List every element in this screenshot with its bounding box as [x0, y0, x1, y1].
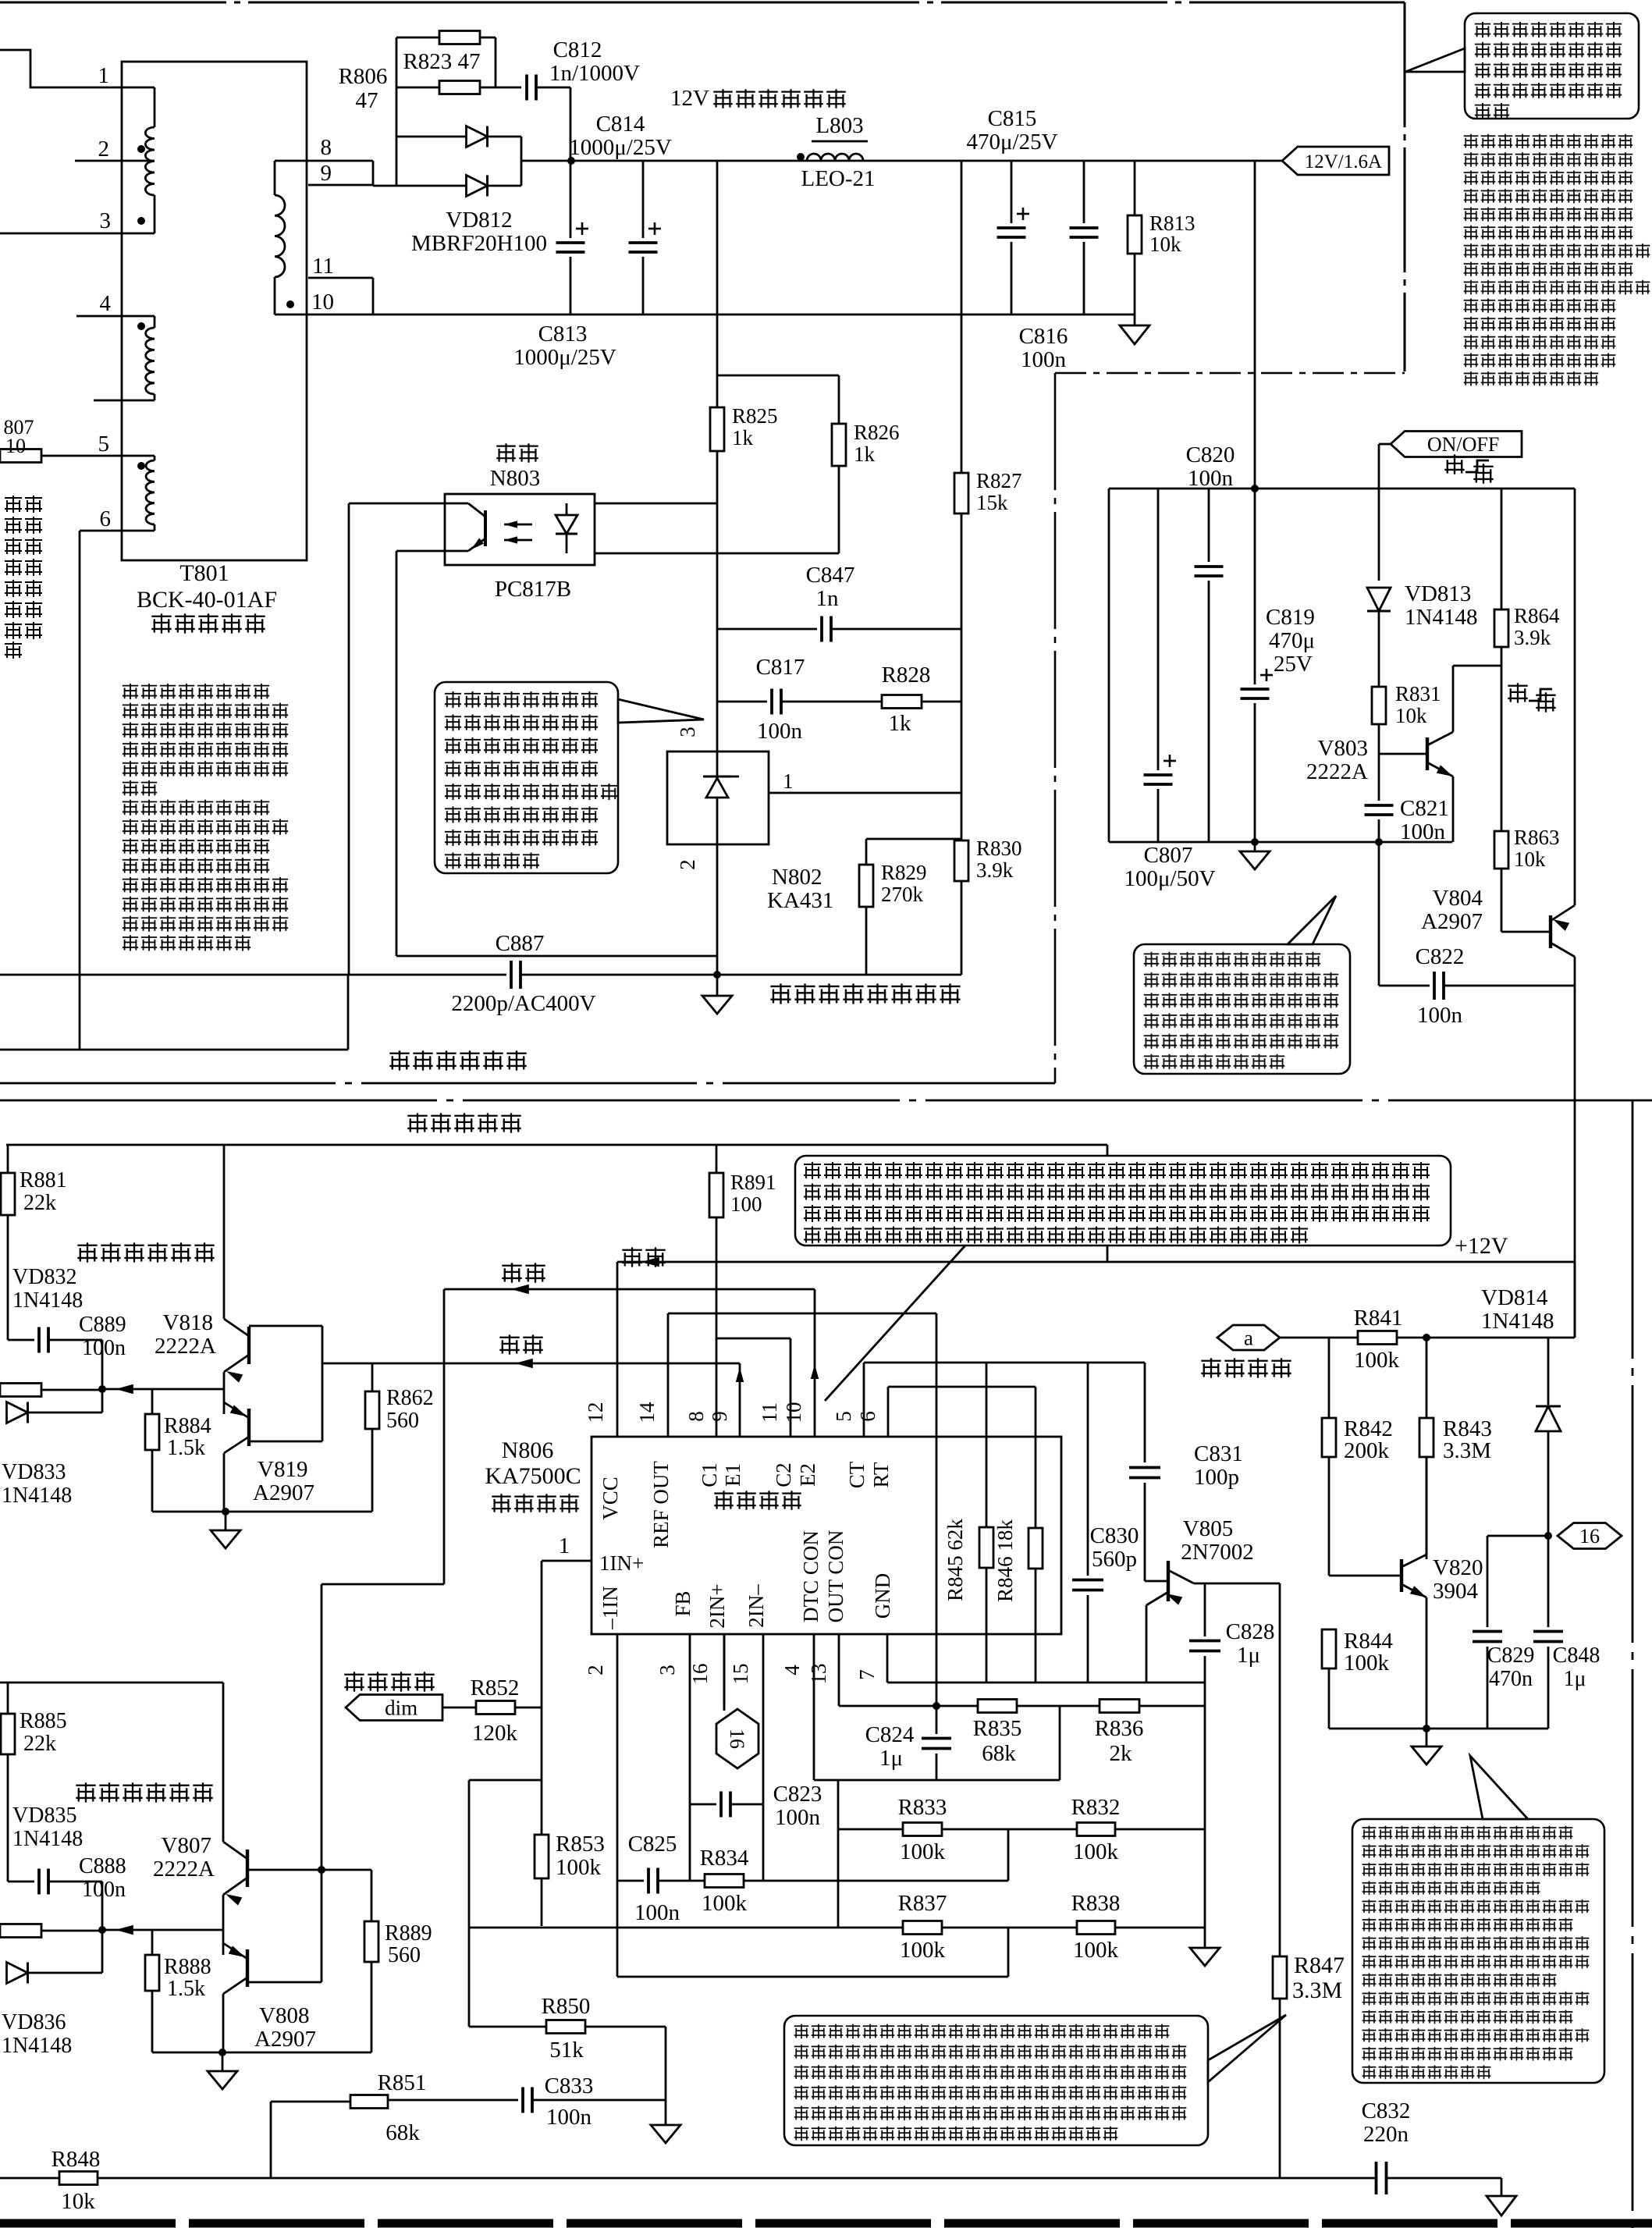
- svg-text:3.3M: 3.3M: [1443, 1438, 1491, 1463]
- svg-text:R841: R841: [1354, 1306, 1403, 1331]
- resistor R851: [271, 2101, 350, 2103]
- excite line upper from pin10: [444, 1288, 815, 1291]
- svg-text:2: 2: [98, 137, 110, 162]
- capacitor C816: [1083, 161, 1085, 223]
- net flag 16 right: [1544, 1532, 1552, 1540]
- svg-text:22k: 22k: [23, 1732, 56, 1756]
- resistor R827: [961, 161, 963, 473]
- svg-text:C833: C833: [545, 2073, 594, 2098]
- svg-text:12: 12: [584, 1402, 607, 1423]
- IC N802 KA431: [667, 752, 769, 844]
- svg-text:100: 100: [730, 1192, 762, 1216]
- svg-text:100n: 100n: [1021, 347, 1067, 372]
- net flag 12V/1.6A: [1282, 147, 1389, 175]
- svg-text:V820: V820: [1433, 1555, 1483, 1580]
- svg-text:51k: 51k: [549, 2038, 584, 2063]
- svg-text:R838: R838: [1071, 1891, 1121, 1916]
- wire collector V818 from bus: [223, 1145, 226, 1319]
- resistor R884: [151, 1389, 154, 1414]
- svg-text:1N4148: 1N4148: [12, 1827, 83, 1851]
- svg-text:1: 1: [559, 1533, 570, 1558]
- capacitor C833: [388, 2099, 518, 2102]
- wire pin1 branch left: [469, 1779, 542, 1782]
- svg-text:ON/OFF: ON/OFF: [1427, 433, 1499, 456]
- svg-text:C807: C807: [1144, 843, 1193, 868]
- transistor V819: [247, 1409, 250, 1446]
- resistor R806: [396, 87, 439, 89]
- T801 primary winding 3: [154, 456, 156, 460]
- svg-text:R837: R837: [898, 1891, 947, 1916]
- label switching power supply section: [388, 1049, 528, 1072]
- svg-text:16: 16: [1579, 1525, 1600, 1548]
- repair hint text right: [1462, 133, 1634, 150]
- resistor R823: [396, 37, 439, 39]
- svg-text:R806: R806: [339, 64, 388, 89]
- svg-text:100k: 100k: [1073, 1839, 1119, 1864]
- ground gnd spine: [1190, 1948, 1220, 1966]
- svg-text:R863: R863: [1514, 826, 1560, 849]
- svg-text:3.3M: 3.3M: [1292, 1977, 1342, 2003]
- resistor R847: [1279, 1583, 1281, 1956]
- svg-text:A2907: A2907: [1421, 909, 1483, 934]
- capacitor C813 electrolytic: [570, 161, 572, 238]
- wire switch block top: [1109, 488, 1575, 490]
- transformer T801: [122, 62, 307, 560]
- svg-text:100n: 100n: [757, 719, 803, 744]
- resistor R836: [1100, 1700, 1139, 1713]
- border right: [1404, 2, 1406, 371]
- svg-text:220n: 220n: [1363, 2122, 1409, 2147]
- svg-text:1n/1000V: 1n/1000V: [549, 61, 640, 86]
- svg-text:1k: 1k: [854, 442, 876, 466]
- capacitor C807 electrolytic: [1157, 489, 1160, 770]
- svg-text:C889: C889: [79, 1313, 126, 1337]
- diode VD833: [101, 1389, 104, 1412]
- svg-text:VD814: VD814: [1481, 1285, 1548, 1310]
- svg-text:9: 9: [708, 1411, 731, 1422]
- callout auto brightness: [784, 2016, 1208, 2145]
- section divider lines: [0, 1082, 1055, 1085]
- svg-text:200k: 200k: [1344, 1438, 1390, 1463]
- capacitor C824: [936, 1706, 938, 1734]
- pin 5 CT: [863, 1363, 865, 1437]
- svg-text:1: 1: [783, 769, 794, 793]
- wire pins 10-11 join: [372, 278, 375, 314]
- callout regulator control: [435, 682, 618, 873]
- T801 pin 1: [0, 50, 155, 87]
- resistor R841: [1358, 1331, 1397, 1345]
- wire V804 emitter from top: [1574, 489, 1576, 905]
- svg-text:R862: R862: [386, 1386, 434, 1410]
- wire switch block bottom: [1109, 841, 1452, 844]
- wire R837 R838 mid branch: [1007, 1928, 1010, 1977]
- svg-text:1.5k: 1.5k: [167, 1977, 205, 2001]
- svg-text:11: 11: [758, 1402, 781, 1423]
- svg-text:6: 6: [100, 506, 112, 531]
- svg-text:2N7002: 2N7002: [1181, 1540, 1253, 1565]
- resistor R832: [1077, 1823, 1115, 1836]
- T801 primary winding 1: [154, 87, 156, 127]
- wire C2 branch: [716, 1338, 790, 1340]
- wire R851 to bus: [270, 2102, 272, 2178]
- svg-text:10k: 10k: [1514, 847, 1546, 871]
- svg-text:V807: V807: [162, 1833, 211, 1858]
- resistor R853: [535, 1835, 549, 1878]
- pin 4 DTC CON: [813, 1634, 815, 1780]
- svg-text:10k: 10k: [1149, 233, 1181, 256]
- T801 pin 9: [308, 184, 373, 187]
- wire N803 pin4 to R825: [595, 503, 717, 505]
- svg-text:8: 8: [321, 135, 332, 160]
- resistor R850: [469, 2026, 546, 2028]
- svg-text:100k: 100k: [702, 1891, 748, 1916]
- resistor R846: [1035, 1387, 1037, 1528]
- feedback line C825 R834: [617, 1880, 644, 1882]
- svg-text:RT: RT: [869, 1462, 893, 1487]
- resistor R838: [1077, 1921, 1115, 1935]
- wire base tie V818 V819: [249, 1325, 322, 1327]
- wire V803 collector to R864: [1453, 665, 1501, 667]
- svg-text:100n: 100n: [634, 1900, 680, 1925]
- capacitor C828: [1204, 1583, 1206, 1636]
- capacitor C823: [690, 1803, 716, 1806]
- left margin text: [3, 494, 44, 514]
- resistor R825: [716, 161, 719, 407]
- svg-text:C887: C887: [496, 931, 545, 956]
- svg-text:R891: R891: [730, 1171, 776, 1194]
- svg-text:C2: C2: [772, 1462, 795, 1487]
- svg-text:100n: 100n: [82, 1336, 126, 1360]
- svg-text:C829: C829: [1487, 1643, 1535, 1668]
- svg-text:15: 15: [729, 1664, 752, 1685]
- T801 repair hint text: [121, 682, 271, 701]
- svg-text:12V: 12V: [670, 86, 709, 111]
- svg-text:R829: R829: [881, 861, 927, 884]
- resistor R852: [442, 1707, 476, 1709]
- T801 pin 3: [0, 233, 155, 235]
- svg-text:68k: 68k: [385, 2120, 420, 2145]
- T801 pin 4: [76, 315, 155, 318]
- optocoupler N803: [445, 494, 595, 565]
- svg-text:E1: E1: [721, 1463, 744, 1487]
- resistor R885: [7, 1683, 9, 1714]
- svg-text:22k: 22k: [23, 1191, 56, 1215]
- svg-text:R828: R828: [882, 663, 931, 688]
- svg-text:C813: C813: [538, 322, 588, 346]
- svg-text:100k: 100k: [556, 1855, 602, 1880]
- pin 15 2IN-: [762, 1634, 765, 1881]
- svg-text:12V/1.6A: 12V/1.6A: [1305, 151, 1382, 172]
- resistor R888: [151, 1930, 154, 1955]
- svg-text:68k: 68k: [982, 1741, 1016, 1766]
- svg-text:2: 2: [584, 1665, 607, 1675]
- svg-text:V803: V803: [1318, 736, 1368, 761]
- svg-text:10k: 10k: [1395, 704, 1427, 727]
- svg-text:T801: T801: [179, 560, 229, 586]
- resistor R883: [0, 1384, 41, 1397]
- switch waveform glyph 2: [1506, 681, 1529, 705]
- svg-text:R835: R835: [973, 1716, 1022, 1741]
- pin 3 FB: [689, 1634, 691, 1881]
- capacitor C832: [1375, 2162, 1378, 2194]
- svg-text:100μ/50V: 100μ/50V: [1124, 866, 1215, 891]
- svg-text:4: 4: [780, 1665, 804, 1675]
- IC ground line: [887, 1682, 1205, 1684]
- svg-text:R884: R884: [164, 1414, 211, 1438]
- svg-text:V818: V818: [163, 1310, 213, 1335]
- wire divider node: [866, 838, 961, 840]
- svg-text:1N4148: 1N4148: [2, 1484, 72, 1508]
- svg-text:V804: V804: [1433, 886, 1483, 911]
- svg-text:2IN–: 2IN–: [744, 1584, 768, 1628]
- border bottom thick dashes: [0, 2219, 1652, 2228]
- transistor V805 2N7002: [1145, 1580, 1168, 1583]
- svg-text:GND: GND: [871, 1573, 894, 1619]
- svg-text:V805: V805: [1183, 1516, 1233, 1541]
- svg-text:R889: R889: [385, 1921, 432, 1946]
- capacitor C814 electrolytic: [642, 161, 645, 238]
- resistor R828: [882, 695, 922, 709]
- svg-text:LEO-21: LEO-21: [801, 166, 875, 191]
- resistor R864: [1501, 489, 1503, 609]
- label excite amplifier lower: [74, 1781, 215, 1804]
- capacitor C847: [717, 628, 817, 631]
- svg-text:13: 13: [807, 1664, 830, 1685]
- svg-text:DTC CON: DTC CON: [799, 1530, 822, 1622]
- svg-text:C815: C815: [988, 106, 1037, 131]
- capacitor C822: [1378, 842, 1380, 986]
- wire V808 base line: [247, 1981, 322, 1984]
- T801 pin 10: [275, 314, 373, 316]
- svg-text:100k: 100k: [900, 1839, 946, 1864]
- svg-text:1μ: 1μ: [1237, 1643, 1260, 1668]
- wire C812 down to rail: [570, 87, 572, 161]
- resistor R830: [954, 840, 968, 881]
- svg-text:R850: R850: [542, 1994, 591, 2019]
- svg-text:C830: C830: [1090, 1523, 1139, 1548]
- transistor V803: [1379, 753, 1427, 755]
- svg-text:100n: 100n: [1400, 819, 1446, 844]
- capacitor C812: [496, 87, 521, 89]
- svg-text:100k: 100k: [1073, 1938, 1119, 1963]
- ground switch block: [1251, 838, 1259, 846]
- svg-text:VD813: VD813: [1405, 581, 1471, 606]
- T801 pin 11: [308, 277, 373, 279]
- svg-text:100p: 100p: [1194, 1465, 1239, 1490]
- callout protect circuit: [1352, 1819, 1604, 2083]
- svg-text:16: 16: [726, 1729, 748, 1749]
- svg-text:C888: C888: [79, 1854, 126, 1878]
- svg-text:R826: R826: [854, 421, 900, 444]
- svg-text:1n: 1n: [816, 586, 840, 611]
- pin 12 VCC: [616, 1262, 619, 1437]
- wire switch block left: [1108, 489, 1110, 842]
- transistor V808: [246, 1949, 249, 1987]
- svg-text:R825: R825: [732, 404, 778, 428]
- svg-text:BCK-40-01AF: BCK-40-01AF: [137, 587, 277, 613]
- label inverter section: [406, 1111, 523, 1135]
- svg-text:N803: N803: [490, 466, 540, 491]
- svg-text:R885: R885: [20, 1709, 67, 1733]
- resistor R845: [986, 1363, 988, 1527]
- svg-text:6: 6: [856, 1411, 879, 1422]
- svg-text:C825: C825: [628, 1832, 677, 1857]
- svg-text:120k: 120k: [472, 1721, 518, 1746]
- svg-text:1000μ/25V: 1000μ/25V: [513, 345, 616, 370]
- svg-text:1k: 1k: [732, 426, 754, 450]
- pin 2 -1IN: [616, 1634, 619, 1977]
- wire DTC line: [814, 1779, 1060, 1782]
- svg-text:+12V: +12V: [1455, 1233, 1508, 1259]
- svg-text:7: 7: [855, 1669, 879, 1680]
- svg-text:100k: 100k: [1354, 1348, 1400, 1373]
- svg-text:R827: R827: [976, 469, 1022, 492]
- svg-text:C822: C822: [1416, 944, 1465, 969]
- svg-text:14: 14: [635, 1402, 659, 1423]
- svg-text:R851: R851: [378, 2070, 427, 2095]
- wire lower cell top rail: [0, 1682, 223, 1684]
- svg-text:R848: R848: [52, 2147, 101, 2172]
- net flag ON/OFF: [1379, 443, 1391, 446]
- ground driver2: [222, 2052, 224, 2071]
- svg-text:1000μ/25V: 1000μ/25V: [569, 135, 672, 160]
- svg-text:470μ: 470μ: [1269, 628, 1315, 653]
- wire collector V807: [222, 1683, 225, 1842]
- svg-text:5: 5: [832, 1411, 855, 1422]
- svg-text:C1: C1: [698, 1462, 721, 1487]
- capacitor C821: [1378, 754, 1380, 801]
- ground sample node: [716, 975, 719, 996]
- wire inverter top bus: [6, 1144, 1107, 1146]
- svg-text:11: 11: [312, 254, 334, 279]
- svg-text:C819: C819: [1266, 605, 1315, 630]
- svg-text:10k: 10k: [61, 2189, 95, 2214]
- svg-text:R832: R832: [1071, 1795, 1121, 1820]
- svg-text:R823 47: R823 47: [403, 49, 480, 74]
- svg-text:1.5k: 1.5k: [167, 1436, 205, 1460]
- wire R850 to C833: [665, 2027, 667, 2100]
- ground bus with C887: [0, 974, 506, 976]
- svg-text:N806: N806: [502, 1437, 554, 1463]
- pin 16 2IN+: [723, 1634, 726, 1709]
- T801 secondary winding: [274, 161, 276, 195]
- resistor R843: [1419, 1418, 1434, 1457]
- diode VD814: [1547, 1338, 1550, 1405]
- svg-text:100n: 100n: [82, 1878, 126, 1902]
- ground R813: [1134, 314, 1136, 325]
- svg-text:C821: C821: [1400, 796, 1449, 821]
- wire lower return: [0, 1049, 348, 1051]
- capacitor C817: [717, 701, 767, 703]
- svg-text:1N4148: 1N4148: [12, 1288, 83, 1313]
- svg-text:R881: R881: [20, 1168, 67, 1192]
- svg-text:R836: R836: [1095, 1716, 1144, 1741]
- svg-text:9: 9: [321, 161, 332, 186]
- wire pin6 down: [79, 531, 81, 1050]
- wire R823/R806 right join: [495, 37, 497, 87]
- svg-text:C812: C812: [553, 37, 602, 62]
- wire R823/R806 left join: [396, 37, 398, 186]
- resistor R891: [716, 1145, 718, 1173]
- wire N803 pin2 left: [396, 550, 445, 553]
- svg-text:REF OUT: REF OUT: [649, 1461, 673, 1548]
- svg-text:1k: 1k: [889, 711, 912, 736]
- net flag 16 at pin: [716, 1709, 758, 1768]
- svg-text:dim: dim: [385, 1696, 417, 1719]
- wire driver output: [102, 1388, 224, 1391]
- capacitor C848: [1547, 1536, 1550, 1627]
- resistor R862: [371, 1363, 374, 1391]
- ref out line: [667, 1313, 670, 1437]
- svg-text:3904: 3904: [1433, 1579, 1479, 1604]
- svg-text:2222A: 2222A: [155, 1334, 216, 1359]
- svg-text:3.9k: 3.9k: [1514, 626, 1551, 649]
- wire emitters join: [223, 1372, 226, 1414]
- svg-text:KA431: KA431: [767, 888, 833, 913]
- svg-text:470n: 470n: [1489, 1667, 1533, 1691]
- svg-text:VD812: VD812: [446, 208, 512, 233]
- wire V807 base line: [247, 1869, 371, 1871]
- wire R833 R832 mid branch: [1007, 1829, 1010, 1881]
- pin 6 RT: [887, 1387, 890, 1437]
- wire pin1 node: [541, 1561, 543, 1835]
- svg-text:C828: C828: [1226, 1619, 1275, 1644]
- svg-text:5: 5: [98, 432, 110, 457]
- svg-text:560p: 560p: [1092, 1547, 1137, 1572]
- diode VD812b: [396, 185, 467, 187]
- pin 1 1IN+: [542, 1560, 592, 1562]
- svg-text:2: 2: [676, 859, 699, 870]
- resistor R835: [978, 1700, 1017, 1713]
- svg-text:C847: C847: [806, 563, 855, 588]
- transistor V818: [247, 1327, 250, 1364]
- resistor R826: [717, 375, 839, 377]
- svg-text:560: 560: [386, 1409, 419, 1433]
- svg-text:1N4148: 1N4148: [1405, 605, 1477, 630]
- svg-text:4: 4: [100, 291, 112, 316]
- svg-text:100n: 100n: [775, 1805, 821, 1830]
- svg-text:a: a: [1244, 1326, 1253, 1349]
- svg-text:100n: 100n: [546, 2105, 592, 2130]
- diode VD836: [101, 1930, 104, 1973]
- ground driver: [225, 1512, 227, 1530]
- wire N803 pin3 to R826: [595, 553, 839, 555]
- svg-text:2200p/AC400V: 2200p/AC400V: [451, 991, 595, 1016]
- svg-text:MBRF20H100: MBRF20H100: [411, 231, 547, 256]
- resistor R833: [838, 1828, 903, 1831]
- svg-text:–1IN: –1IN: [599, 1586, 622, 1630]
- svg-text:PC817B: PC817B: [495, 577, 571, 602]
- svg-text:VCC: VCC: [599, 1476, 622, 1520]
- capacitor C831: [1144, 1363, 1146, 1462]
- wire drive from pin10: [443, 1289, 446, 1584]
- svg-text:N802: N802: [772, 865, 822, 890]
- svg-text:1μ: 1μ: [879, 1746, 903, 1771]
- excite line lower from pin9: [322, 1363, 740, 1365]
- net flag dim: [346, 1695, 442, 1721]
- capacitor C820: [1208, 489, 1210, 562]
- svg-text:3.9k: 3.9k: [976, 858, 1014, 882]
- svg-text:100n: 100n: [1417, 1003, 1463, 1028]
- pin 7 GND: [886, 1634, 889, 1683]
- svg-text:R888: R888: [164, 1955, 211, 1979]
- label brightness adjust: [343, 1670, 436, 1693]
- wire DTC to R833 R837: [837, 1780, 840, 1928]
- svg-text:C824: C824: [865, 1722, 915, 1747]
- svg-text:VD835: VD835: [12, 1803, 76, 1828]
- svg-text:R830: R830: [976, 837, 1022, 860]
- svg-text:2k: 2k: [1110, 1741, 1133, 1766]
